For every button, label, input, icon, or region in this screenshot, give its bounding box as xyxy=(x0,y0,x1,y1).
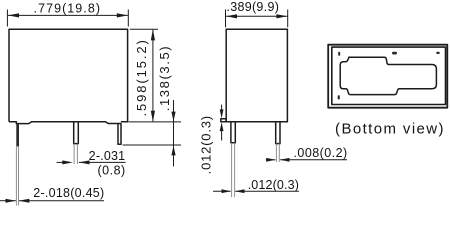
svg-text:(Bottom view): (Bottom view) xyxy=(335,120,445,137)
svg-text:.008(0.2): .008(0.2) xyxy=(294,146,348,160)
svg-text:.598(15.2): .598(15.2) xyxy=(134,38,149,116)
svg-text:2-.018(0.45): 2-.018(0.45) xyxy=(33,186,104,200)
svg-text:.012(0.3): .012(0.3) xyxy=(248,178,299,192)
svg-text:(0.8): (0.8) xyxy=(97,164,125,178)
svg-text:.138(3.5): .138(3.5) xyxy=(157,45,172,111)
svg-text:.012(0.3): .012(0.3) xyxy=(198,115,213,174)
svg-text:.779(19.8): .779(19.8) xyxy=(34,1,101,15)
svg-text:.389(9.9): .389(9.9) xyxy=(226,0,279,14)
svg-text:2-.031: 2-.031 xyxy=(89,149,126,163)
